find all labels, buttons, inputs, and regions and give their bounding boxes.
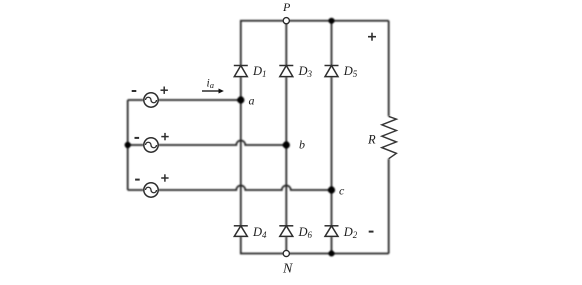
svg-text:b: b <box>299 138 305 152</box>
wire phase b with hop over branch 1 <box>158 141 286 146</box>
node N terminal circle <box>283 250 289 256</box>
polarity plus source Vc <box>161 174 168 181</box>
diode D2 <box>325 226 339 237</box>
node c dot <box>328 186 335 193</box>
wire phase a from rail to source <box>128 99 144 101</box>
wire phase c with hops over branch 1 and branch 2 <box>158 186 331 191</box>
polarity plus source Vb <box>161 133 168 140</box>
ac source Va <box>144 93 158 107</box>
polarity plus load <box>368 33 376 41</box>
svg-text:D6: D6 <box>298 225 313 240</box>
wire branch 1 middle (D1 to D4) <box>240 77 242 226</box>
wire phase b from rail to source <box>128 144 144 146</box>
svg-text:D5: D5 <box>343 64 358 79</box>
svg-text:D3: D3 <box>298 64 313 79</box>
diode D6 <box>279 226 293 237</box>
node b dot <box>283 141 290 148</box>
wire right rail lower <box>388 159 390 254</box>
junction dot bottom rail <box>329 251 335 257</box>
svg-text:ia: ia <box>207 78 214 91</box>
wire top rail P <box>241 21 389 66</box>
node P terminal circle <box>283 18 289 24</box>
svg-text:P: P <box>282 0 291 14</box>
wire left rail connecting sources <box>127 100 129 190</box>
node a dot <box>237 96 244 103</box>
polarity minus source Vc <box>135 179 140 181</box>
diode D5 <box>325 66 339 77</box>
svg-text:c: c <box>339 184 345 198</box>
junction dot left rail <box>125 142 131 148</box>
wire branch 3 lower (D2 to bottom rail) <box>331 236 333 253</box>
svg-text:N: N <box>282 262 293 277</box>
wire bottom rail N <box>241 236 389 253</box>
diode D4 <box>234 226 248 237</box>
polarity minus source Vb <box>135 137 140 139</box>
ac source Vc <box>144 183 158 197</box>
wire branch 2 upper (P to D3) <box>285 21 287 66</box>
wire branch 3 upper (top rail to D5) <box>331 21 333 66</box>
wire right rail upper <box>388 21 390 117</box>
svg-text:D2: D2 <box>343 225 358 240</box>
svg-text:D4: D4 <box>252 225 267 240</box>
polarity plus source Va <box>161 87 168 94</box>
junction dot top rail <box>329 18 335 24</box>
svg-text:a: a <box>249 94 255 108</box>
wire branch 3 middle (D5 to D2) <box>331 77 333 226</box>
svg-text:R: R <box>367 133 376 147</box>
wire branch 2 middle (D3 to D6) <box>285 77 287 226</box>
polarity minus load <box>369 231 374 233</box>
resistor R <box>382 116 397 158</box>
wire phase a from source to node a <box>158 99 241 101</box>
svg-text:D1: D1 <box>252 64 267 79</box>
wire phase c from rail to source <box>128 189 144 191</box>
ac source Vb <box>144 138 158 152</box>
wire branch 2 lower (D6 to N) <box>285 236 287 253</box>
diode D3 <box>279 66 293 77</box>
diode D1 <box>234 66 248 77</box>
polarity minus source Va <box>132 90 137 92</box>
current arrow ia <box>202 89 224 94</box>
